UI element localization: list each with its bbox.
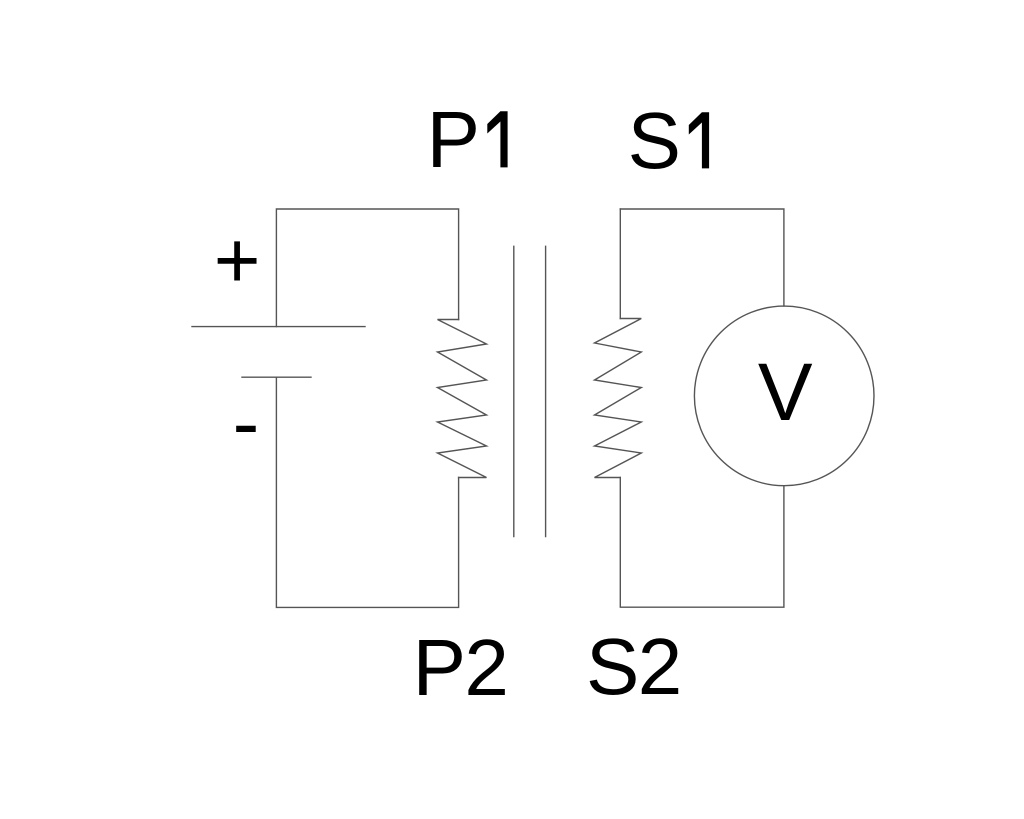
svg-text:V: V xyxy=(758,347,813,438)
svg-text:S: S xyxy=(628,96,681,185)
svg-text:+: + xyxy=(214,216,261,305)
svg-text:-: - xyxy=(233,378,260,467)
svg-text:2: 2 xyxy=(464,623,509,712)
svg-text:P: P xyxy=(413,623,466,712)
svg-text:2: 2 xyxy=(638,622,683,711)
svg-text:P: P xyxy=(427,95,480,184)
svg-text:S: S xyxy=(586,622,639,711)
